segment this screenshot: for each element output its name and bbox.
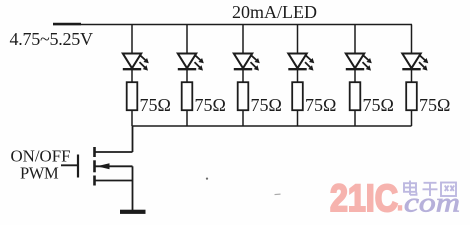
svg-text:21IC: 21IC bbox=[330, 178, 398, 220]
svg-text:com: com bbox=[404, 188, 460, 218]
svg-text:20mA/LED: 20mA/LED bbox=[232, 2, 317, 22]
svg-text:75Ω: 75Ω bbox=[251, 95, 282, 115]
svg-text:PWM: PWM bbox=[20, 164, 59, 183]
svg-text:ON/OFF: ON/OFF bbox=[11, 146, 71, 165]
svg-text:75Ω: 75Ω bbox=[140, 95, 171, 115]
svg-text:75Ω: 75Ω bbox=[305, 95, 336, 115]
svg-text:4.75~5.25V: 4.75~5.25V bbox=[10, 29, 93, 49]
svg-text:75Ω: 75Ω bbox=[195, 95, 226, 115]
svg-text:75Ω: 75Ω bbox=[363, 95, 394, 115]
svg-text:75Ω: 75Ω bbox=[419, 95, 450, 115]
